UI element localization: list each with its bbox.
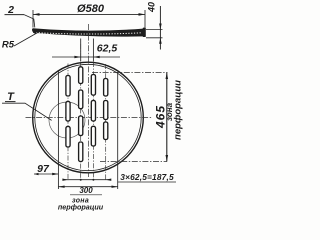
dim 40 arrow lower (outside, pointing up)	[159, 38, 162, 44]
svg-text:300: 300	[79, 186, 93, 195]
slot C4-1	[104, 79, 108, 97]
svg-text:R5: R5	[2, 40, 15, 51]
inner circle (rim bend line)	[35, 64, 141, 170]
zone bottom extension (to 465 dim)	[100, 161, 167, 163]
chain dim arrow right	[106, 179, 112, 181]
chain dim tick C3	[92, 179, 94, 181]
label R5 leader	[14, 32, 40, 47]
slot C2-4	[79, 142, 83, 162]
dim 97 arrow right	[52, 173, 58, 176]
dim 300 arrow right	[112, 186, 118, 188]
label 2 underline	[5, 14, 25, 16]
svg-text:3×62,5=187,5: 3×62,5=187,5	[120, 172, 174, 182]
dim 465 arrow top	[166, 73, 169, 80]
dim 62,5 extension C2	[80, 39, 82, 62]
dim Ø580 arrow left	[33, 13, 40, 16]
dim 62,5 line	[52, 56, 120, 58]
chain dim text underline	[118, 181, 176, 183]
label 2 leader	[24, 15, 35, 28]
dim 97 line	[34, 173, 58, 175]
perforation zone right boundary	[117, 72, 119, 189]
dim Ø580 extension line right	[144, 10, 146, 28]
left rim bend R5	[33, 29, 37, 33]
svg-text:40: 40	[147, 2, 157, 13]
dim 465 arrow bottom	[166, 155, 169, 162]
svg-text:перфорации: перфорации	[173, 80, 184, 140]
slot C3-3	[91, 126, 95, 146]
column centerline C1	[67, 64, 69, 181]
slot C3-1	[91, 75, 95, 96]
column centerline C2	[80, 44, 82, 181]
svg-text:62,5: 62,5	[97, 43, 118, 55]
slot C1-1	[66, 76, 70, 97]
zone top extension (to 465 dim)	[92, 72, 168, 74]
column centerline C4	[105, 64, 107, 181]
right rim flange	[143, 28, 146, 37]
slot C3-2	[91, 100, 95, 121]
svg-text:Ø580: Ø580	[77, 3, 105, 15]
dim 300 text underline	[70, 194, 102, 196]
dim 62,5 arrow left (outside)	[74, 56, 80, 59]
dim 40 extension bottom	[146, 37, 163, 39]
svg-text:перфорации: перфорации	[58, 203, 104, 212]
dim Ø580 line	[33, 13, 145, 15]
dim 62,5 arrow right (outside)	[93, 56, 99, 59]
slot C2-2	[79, 90, 83, 109]
column centerline C3	[92, 62, 94, 181]
plate section texture line	[36, 33, 141, 34]
dim 40 arrow upper (outside, pointing down)	[159, 24, 162, 30]
svg-text:97: 97	[37, 163, 50, 175]
plate section (dished disc, blackened thin section)	[33, 28, 144, 36]
dim 40 line	[159, 6, 161, 50]
dim 97 arrow left	[34, 173, 39, 175]
dim 300 arrow left	[58, 186, 64, 188]
slot C2-1	[79, 67, 83, 84]
slot C1-3	[66, 126, 70, 147]
dim 62,5 extension C3	[92, 39, 94, 62]
main horizontal centerline	[26, 117, 153, 119]
slot C4-2	[104, 101, 108, 120]
outer circle Ø580	[33, 62, 144, 173]
dim Ø580 extension line left	[32, 10, 34, 28]
dim Ø580 arrow right	[139, 13, 146, 16]
label T underline	[5, 101, 16, 103]
label T leader	[2, 103, 52, 120]
detail view circle T	[49, 102, 85, 138]
perforation zone left boundary	[57, 72, 59, 190]
dim 40 extension top	[146, 29, 163, 31]
dim 465 line	[166, 73, 168, 162]
paper background	[0, 0, 190, 212]
chain dim 3x62,5 line	[63, 179, 111, 181]
main vertical centerline	[88, 24, 90, 177]
slot C4-3	[104, 122, 108, 140]
chain dim arrow left	[62, 179, 68, 181]
slot C1-2	[66, 101, 70, 121]
chain dim tick C2	[80, 179, 82, 181]
dim 300 line	[58, 186, 117, 188]
slot C2-3	[79, 116, 83, 136]
